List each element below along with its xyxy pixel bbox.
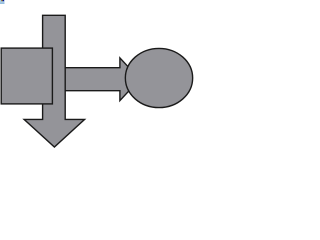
tiny icon top-left bbox=[0, 0, 5, 4]
down block arrow bbox=[24, 15, 85, 147]
ellipse bbox=[125, 48, 192, 107]
square bbox=[1, 48, 52, 104]
right block arrow bbox=[40, 58, 140, 101]
